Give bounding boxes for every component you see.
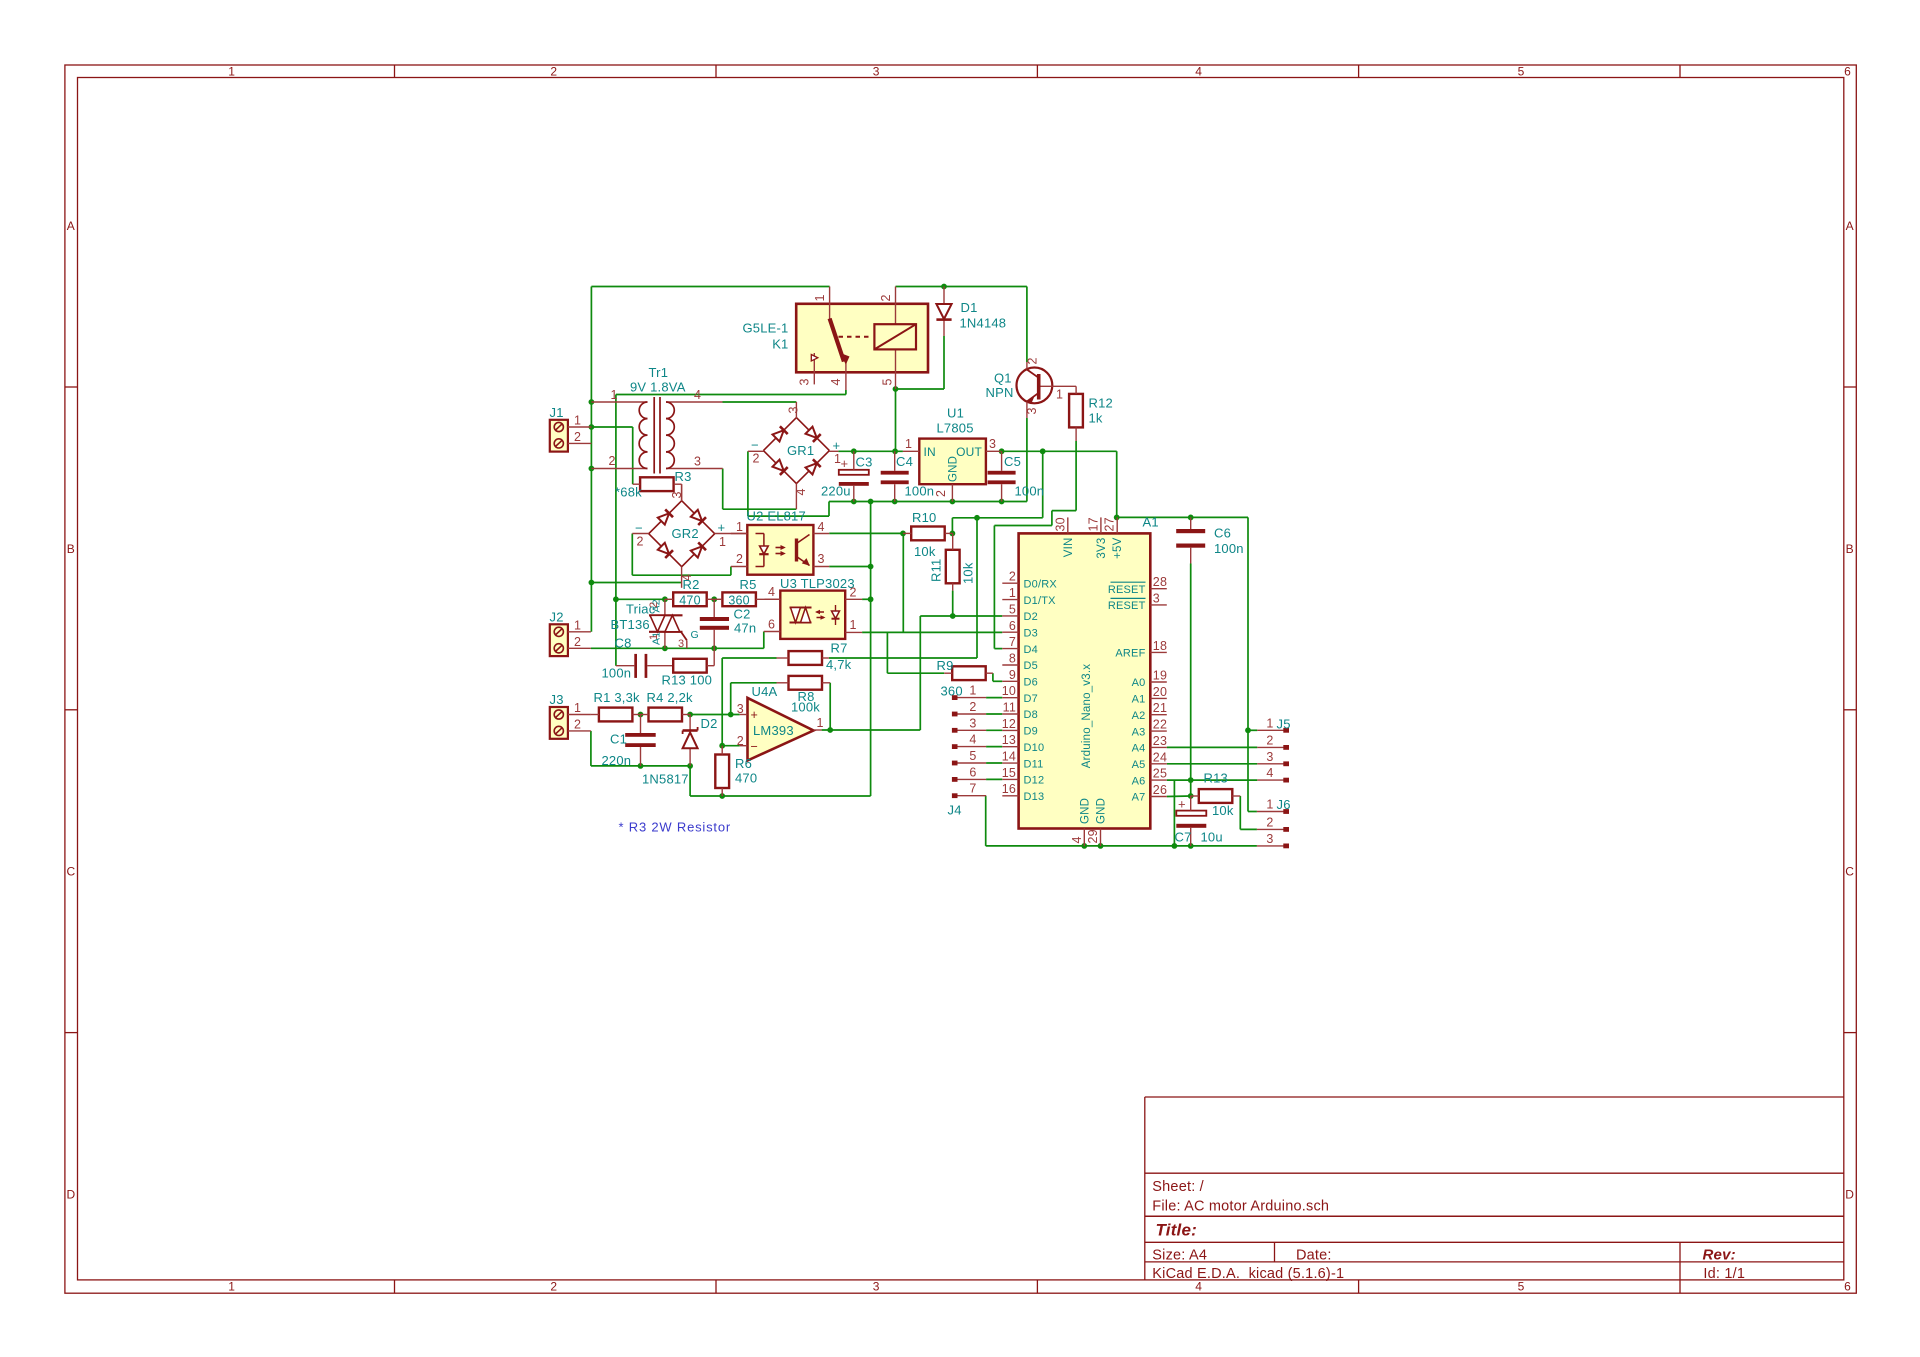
svg-text:D1: D1: [961, 300, 978, 315]
svg-text:2: 2: [879, 294, 893, 301]
resistor R1 3,3k: [591, 690, 641, 721]
svg-text:3V3: 3V3: [1096, 538, 1108, 559]
wire GR2 AC2 row: [591, 582, 681, 584]
svg-text:J3: J3: [550, 692, 564, 707]
svg-text:4: 4: [768, 585, 775, 599]
svg-text:R11: R11: [929, 559, 944, 582]
wire R12 to D4: [994, 441, 1076, 649]
svg-text:+: +: [718, 520, 726, 535]
svg-text:3: 3: [678, 638, 684, 650]
capacitor C7 10u: [1175, 796, 1223, 846]
svg-text:1N4148: 1N4148: [960, 316, 1007, 331]
svg-text:D8: D8: [1024, 709, 1038, 721]
op-amp U4A LM393: [737, 684, 824, 761]
svg-text:C5: C5: [1004, 454, 1021, 469]
svg-text:7: 7: [969, 782, 976, 796]
svg-text:6: 6: [1009, 619, 1016, 633]
svg-text:R4 2,2k: R4 2,2k: [647, 690, 694, 705]
svg-text:C6: C6: [1214, 526, 1231, 541]
svg-text:220n: 220n: [602, 753, 632, 768]
bridge rectifier GR1: [748, 402, 841, 509]
svg-text:4: 4: [818, 520, 825, 534]
svg-text:D13: D13: [1024, 791, 1045, 803]
svg-text:2: 2: [574, 430, 581, 444]
transformer Tr1: [591, 365, 722, 474]
svg-text:OUT: OUT: [956, 445, 982, 459]
svg-text:RESET: RESET: [1108, 600, 1146, 612]
wire AC neutral vertical (J1.1 bus): [589, 287, 595, 632]
wire A5 to J5.3: [1167, 763, 1258, 765]
mcu A1 Arduino Nano: [1002, 515, 1167, 846]
svg-text:C1: C1: [610, 732, 627, 747]
svg-text:D6: D6: [1024, 677, 1038, 689]
wire D1 cathode to relay pin5: [893, 336, 944, 392]
capacitor C1 220n: [602, 715, 656, 769]
svg-text:1: 1: [1266, 716, 1273, 730]
svg-text:1: 1: [969, 684, 976, 698]
svg-text:G5LE-1: G5LE-1: [742, 321, 788, 336]
svg-text:1: 1: [1266, 798, 1273, 812]
svg-text:1: 1: [611, 388, 618, 402]
svg-text:1: 1: [228, 64, 235, 78]
svg-text:A3: A3: [1132, 726, 1146, 738]
wire U2.4 to R10: [829, 531, 955, 537]
svg-text:27: 27: [1103, 517, 1117, 531]
svg-text:360: 360: [941, 684, 963, 699]
svg-text:+: +: [841, 456, 849, 471]
wire +9V rail (GR1+ / C3 / C4 / U1 IN): [838, 448, 903, 454]
svg-text:NPN: NPN: [986, 385, 1014, 400]
svg-text:R12: R12: [1089, 396, 1113, 411]
svg-text:VIN: VIN: [1063, 538, 1075, 558]
svg-text:5: 5: [1518, 64, 1525, 78]
svg-text:3: 3: [969, 716, 976, 730]
svg-text:8: 8: [1009, 652, 1016, 666]
svg-text:1: 1: [1009, 586, 1016, 600]
svg-text:6: 6: [969, 765, 976, 779]
connector J1: [550, 405, 592, 452]
svg-text:100k: 100k: [791, 700, 820, 715]
svg-text:2: 2: [648, 602, 660, 608]
svg-text:4: 4: [1266, 766, 1273, 780]
wire +5V rail from U1 OUT: [999, 448, 1257, 811]
svg-text:Rev:: Rev:: [1703, 1247, 1736, 1264]
svg-text:K1: K1: [772, 337, 788, 352]
svg-text:5: 5: [969, 749, 976, 763]
svg-text:Q1: Q1: [994, 371, 1012, 386]
svg-text:B: B: [1846, 542, 1854, 556]
svg-text:4: 4: [794, 488, 808, 495]
diode D1 1N4148: [936, 287, 1006, 337]
svg-text:3: 3: [1025, 407, 1039, 414]
svg-text:2: 2: [934, 490, 948, 497]
svg-text:RESET: RESET: [1108, 584, 1146, 596]
svg-text:D2: D2: [1024, 611, 1038, 623]
svg-text:U2 EL817: U2 EL817: [747, 509, 806, 524]
svg-text:GR1: GR1: [787, 443, 814, 458]
svg-text:2: 2: [574, 718, 581, 732]
resistor R9 360: [937, 658, 993, 699]
wire R8 right to output: [829, 683, 831, 730]
svg-text:24: 24: [1153, 750, 1167, 764]
svg-text:A1: A1: [1132, 694, 1146, 706]
wire J1.1 to R3: [591, 427, 632, 484]
svg-text:30: 30: [1053, 517, 1067, 531]
svg-text:A5: A5: [1132, 759, 1146, 771]
svg-text:3: 3: [818, 552, 825, 566]
svg-text:4,7k: 4,7k: [826, 657, 852, 672]
wire +5V to R7: [829, 518, 977, 658]
capacitor C8 100n: [602, 636, 674, 681]
svg-text:D: D: [66, 1188, 75, 1202]
svg-text:20: 20: [1153, 685, 1167, 699]
connector J2: [550, 609, 591, 656]
svg-text:L7805: L7805: [937, 421, 974, 436]
svg-text:9V 1.8VA: 9V 1.8VA: [630, 380, 686, 395]
svg-text:3: 3: [873, 1279, 880, 1293]
svg-text:1: 1: [228, 1279, 235, 1293]
triac BT136: [611, 599, 699, 650]
capacitor C2 47n: [700, 599, 756, 648]
svg-text:D2: D2: [701, 716, 718, 731]
svg-text:1: 1: [850, 618, 857, 632]
svg-text:Tr1: Tr1: [649, 365, 669, 380]
svg-text:22: 22: [1153, 718, 1167, 732]
opto-triac U3 TLP3023: [764, 576, 862, 639]
resistor R10 10k: [903, 510, 952, 559]
wire R11 bottom: [952, 591, 954, 616]
svg-text:1N5817: 1N5817: [642, 772, 689, 787]
svg-text:IN: IN: [924, 445, 936, 459]
svg-text:−: −: [751, 740, 759, 754]
relay K1 G5LE-1: [742, 287, 928, 391]
svg-text:47n: 47n: [734, 620, 756, 635]
svg-text:J5: J5: [1277, 717, 1291, 732]
svg-text:9: 9: [1009, 668, 1016, 682]
svg-text:D5: D5: [1024, 660, 1038, 672]
svg-text:16: 16: [1002, 782, 1016, 796]
svg-text:AREF: AREF: [1115, 648, 1145, 660]
wire Tr1 pin3 to GR1 pin4: [723, 469, 797, 510]
svg-text:J6: J6: [1277, 797, 1291, 812]
svg-text:R5: R5: [740, 577, 757, 592]
optocoupler U2 EL817: [731, 509, 829, 575]
svg-text:D0/RX: D0/RX: [1024, 578, 1058, 590]
svg-text:1: 1: [574, 701, 581, 715]
svg-text:* R3 2W Resistor: * R3 2W Resistor: [619, 820, 732, 835]
wire J3.2 to GND row: [591, 731, 693, 769]
svg-text:R10: R10: [912, 510, 936, 525]
resistor R11 10k: [929, 533, 976, 590]
svg-text:R3: R3: [675, 469, 692, 484]
svg-text:3: 3: [873, 64, 880, 78]
svg-text:4: 4: [1070, 836, 1084, 843]
svg-text:10u: 10u: [1201, 830, 1223, 845]
svg-text:D7: D7: [1024, 693, 1038, 705]
svg-text:U1: U1: [947, 406, 964, 421]
svg-text:25: 25: [1153, 767, 1167, 781]
svg-text:2: 2: [737, 734, 744, 748]
resistor R2 470: [665, 577, 714, 607]
svg-text:C8: C8: [615, 636, 632, 651]
svg-text:J4: J4: [948, 803, 962, 818]
svg-text:R13: R13: [1204, 771, 1228, 786]
wire GND rail middle: [829, 499, 1027, 505]
svg-text:2: 2: [1266, 815, 1273, 829]
wire GND bus vertical: [690, 502, 873, 799]
svg-text:3: 3: [989, 437, 996, 451]
svg-text:2: 2: [1009, 570, 1016, 584]
wire R8 to plus input: [731, 683, 777, 715]
svg-text:C7: C7: [1175, 830, 1192, 845]
svg-text:G: G: [691, 629, 699, 641]
svg-text:Id: 1/1: Id: 1/1: [1703, 1266, 1745, 1282]
svg-text:23: 23: [1153, 734, 1167, 748]
svg-text:6: 6: [1844, 1279, 1851, 1293]
svg-text:3: 3: [694, 455, 701, 469]
svg-text:A4: A4: [1132, 743, 1146, 755]
wire relay pin4 to triac line: [613, 390, 846, 666]
svg-text:2: 2: [637, 535, 644, 549]
note R3 2W: [619, 820, 732, 835]
svg-text:C4: C4: [896, 454, 913, 469]
svg-text:10k: 10k: [1212, 803, 1234, 818]
wire relay coil+ to D1 and Q1 collector: [896, 284, 1027, 362]
svg-text:3: 3: [787, 406, 801, 413]
svg-text:R7: R7: [831, 641, 848, 656]
svg-text:2: 2: [753, 452, 760, 466]
wire GR1 minus to GND: [748, 451, 829, 516]
svg-text:12: 12: [1002, 717, 1016, 731]
svg-text:29: 29: [1086, 829, 1100, 843]
svg-text:D10: D10: [1024, 742, 1045, 754]
svg-text:11: 11: [1003, 701, 1016, 715]
wire J5.1 feed: [1248, 729, 1257, 731]
svg-text:220u: 220u: [821, 484, 851, 499]
svg-text:R2: R2: [683, 577, 700, 592]
svg-text:3: 3: [1153, 591, 1160, 605]
wire relay pin5 to rectifier + node: [895, 389, 897, 451]
title block: [1144, 1097, 1146, 1280]
svg-text:Sheet: /: Sheet: /: [1152, 1179, 1204, 1195]
svg-text:3: 3: [1266, 832, 1273, 846]
svg-text:5: 5: [1009, 602, 1016, 616]
resistor R8 100k: [777, 676, 831, 715]
wire A7 to R13: [1167, 795, 1191, 798]
svg-text:BT136: BT136: [611, 617, 650, 632]
wire +5V branch to pullups: [952, 451, 1042, 533]
svg-text:1: 1: [574, 618, 581, 632]
resistor R5 360: [714, 577, 780, 607]
svg-text:−: −: [751, 438, 759, 453]
svg-text:21: 21: [1153, 701, 1167, 715]
svg-text:C: C: [1845, 865, 1854, 879]
svg-text:18: 18: [1153, 639, 1167, 653]
svg-text:4: 4: [969, 733, 976, 747]
svg-text:GND: GND: [1079, 798, 1091, 824]
svg-text:15: 15: [1002, 766, 1016, 780]
svg-text:D4: D4: [1024, 644, 1038, 656]
svg-text:R13 100: R13 100: [662, 673, 713, 688]
svg-text:GND: GND: [948, 456, 960, 482]
svg-text:+: +: [1178, 797, 1186, 812]
svg-text:10: 10: [1002, 684, 1016, 698]
wire A6 to GND: [1173, 780, 1175, 846]
svg-text:GR2: GR2: [672, 526, 699, 541]
svg-text:2: 2: [850, 586, 857, 600]
regulator U1 L7805: [903, 406, 1001, 502]
svg-text:4: 4: [1195, 64, 1202, 78]
svg-text:A1: A1: [1143, 515, 1159, 530]
wires J4 to D7-D12: [986, 698, 1002, 780]
svg-text:14: 14: [1002, 750, 1016, 764]
svg-text:D1/TX: D1/TX: [1024, 595, 1057, 607]
wire C6 down the A-pins: [1188, 564, 1194, 799]
svg-text:Title:: Title:: [1156, 1221, 1198, 1240]
wire U2.2 to GR2 minus: [632, 534, 731, 576]
svg-text:D3: D3: [1024, 628, 1038, 640]
wire J2.2 snubber row: [591, 632, 764, 652]
resistor R7 4,7k: [777, 641, 852, 673]
svg-text:4: 4: [829, 378, 843, 385]
svg-text:C2: C2: [734, 607, 751, 622]
svg-text:D12: D12: [1024, 775, 1045, 787]
svg-text:100n: 100n: [602, 666, 632, 681]
wire R2 Triac row: [616, 596, 717, 602]
wire R7 to minus input: [722, 658, 776, 746]
svg-text:R1 3,3k: R1 3,3k: [594, 690, 641, 705]
capacitor C4 100n: [881, 451, 935, 501]
svg-text:A7: A7: [1132, 792, 1146, 804]
bridge rectifier GR2: [632, 484, 747, 588]
wire R13 to J6.2: [1240, 796, 1257, 829]
wire J4.7 to GND rail: [986, 796, 1257, 849]
svg-text:7: 7: [1009, 635, 1016, 649]
svg-text:100n: 100n: [1015, 484, 1045, 499]
svg-text:1: 1: [905, 437, 912, 451]
svg-text:2: 2: [609, 454, 616, 468]
svg-text:360: 360: [728, 593, 749, 607]
svg-text:6: 6: [1844, 64, 1851, 78]
svg-text:Date:: Date:: [1296, 1248, 1332, 1264]
transistor Q1 NPN: [986, 357, 1077, 418]
svg-text:C: C: [66, 865, 75, 879]
svg-text:10k: 10k: [914, 544, 936, 559]
svg-text:100n: 100n: [905, 484, 935, 499]
svg-text:1: 1: [736, 520, 743, 534]
svg-text:GND: GND: [1096, 798, 1108, 824]
svg-text:+: +: [833, 438, 841, 453]
svg-text:A: A: [67, 219, 75, 233]
svg-text:17: 17: [1086, 517, 1100, 531]
svg-text:2: 2: [1266, 733, 1273, 747]
svg-text:1: 1: [648, 634, 660, 640]
svg-text:5: 5: [881, 378, 895, 385]
svg-text:470: 470: [679, 593, 700, 607]
svg-text:2: 2: [736, 552, 743, 566]
wire U3.1 D3 row: [862, 631, 1002, 633]
wire R10 to D3 net: [902, 533, 904, 632]
svg-text:Size: A4: Size: A4: [1152, 1248, 1207, 1264]
svg-text:B: B: [67, 542, 75, 556]
connector J4: [948, 684, 987, 818]
svg-text:1: 1: [719, 535, 726, 549]
svg-text:13: 13: [1002, 733, 1016, 747]
svg-text:1k: 1k: [1089, 411, 1103, 426]
capacitor C5 100n: [988, 451, 1045, 501]
svg-text:*68k: *68k: [615, 485, 642, 500]
capacitor C6 100n: [1176, 517, 1244, 563]
svg-text:U4A: U4A: [752, 684, 778, 699]
svg-text:D11: D11: [1024, 758, 1044, 770]
wire U4A output to D2 net: [822, 613, 1003, 733]
svg-text:2: 2: [574, 635, 581, 649]
svg-text:J1: J1: [550, 405, 564, 420]
resistor R6 470: [715, 746, 757, 796]
svg-text:10k: 10k: [961, 562, 976, 584]
resistor R13 100 (snubber): [662, 648, 715, 687]
svg-text:C3: C3: [856, 455, 873, 470]
svg-text:1: 1: [817, 716, 824, 730]
svg-text:+5V: +5V: [1112, 537, 1124, 559]
wire Q1 emitter to GND: [1026, 418, 1028, 502]
svg-text:6: 6: [768, 618, 775, 632]
svg-text:470: 470: [735, 771, 757, 786]
svg-text:R9: R9: [937, 658, 954, 673]
svg-text:3: 3: [1266, 750, 1273, 764]
wire U2.3 to GND bus: [829, 564, 873, 570]
svg-text:1: 1: [1056, 388, 1063, 402]
resistor R12 1k: [1069, 386, 1113, 441]
wire U3.2 to GND bus: [862, 598, 871, 600]
svg-text:A6: A6: [1132, 775, 1146, 787]
svg-text:3: 3: [737, 702, 744, 716]
svg-text:3: 3: [798, 378, 812, 385]
connector J6: [1257, 797, 1291, 848]
svg-text:2: 2: [550, 1279, 557, 1293]
connector J3: [550, 692, 591, 739]
svg-text:R6: R6: [735, 756, 752, 771]
svg-text:28: 28: [1153, 575, 1167, 589]
svg-text:2: 2: [969, 700, 976, 714]
wire A6 row to J5.4: [1167, 777, 1258, 783]
diode D2 1N5817: [642, 715, 718, 797]
svg-text:LM393: LM393: [753, 723, 794, 738]
svg-text:+: +: [751, 708, 759, 722]
svg-text:J2: J2: [550, 609, 564, 624]
svg-text:1: 1: [574, 414, 581, 428]
svg-text:100n: 100n: [1214, 541, 1244, 556]
wire D3 branch to R9: [887, 632, 944, 673]
svg-text:U3 TLP3023: U3 TLP3023: [780, 576, 855, 591]
svg-text:2: 2: [1026, 357, 1040, 364]
svg-text:19: 19: [1153, 669, 1167, 683]
wire comparator plus input row: [638, 712, 740, 718]
svg-text:26: 26: [1153, 783, 1167, 797]
wire relay top rail left: [591, 286, 829, 288]
resistor R3 68k: [615, 469, 692, 501]
resistor R13 10k: [1191, 771, 1241, 819]
svg-text:D: D: [1845, 1188, 1854, 1202]
svg-text:2: 2: [550, 64, 557, 78]
resistor R4 2,2k: [641, 690, 694, 721]
connector J5: [1257, 716, 1290, 782]
svg-text:5: 5: [1518, 1279, 1525, 1293]
svg-text:File: AC motor Arduino.sch: File: AC motor Arduino.sch: [1152, 1199, 1329, 1215]
wire Tr1 pin4 to GR1 pin3: [723, 401, 797, 403]
svg-text:A2: A2: [1132, 710, 1146, 722]
svg-text:4: 4: [694, 388, 701, 402]
